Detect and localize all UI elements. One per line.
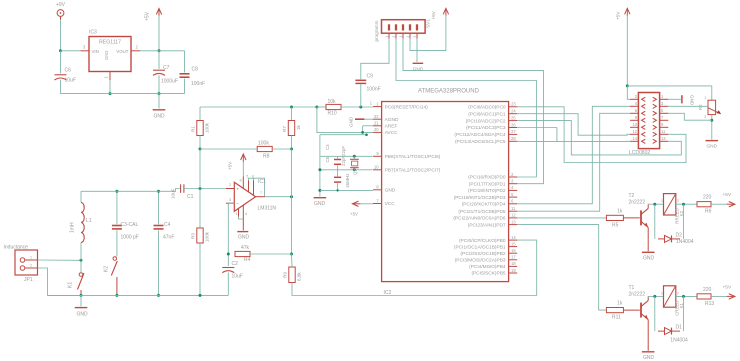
svg-text:K1: K1 [68,282,74,288]
svg-text:28: 28 [511,136,516,141]
svg-text:R13: R13 [705,301,714,307]
svg-text:GND: GND [238,235,250,241]
svg-text:C8: C8 [192,67,199,73]
svg-text:3: 3 [399,36,403,38]
svg-text:2: 2 [677,199,679,203]
svg-text:T1: T1 [629,285,635,291]
svg-text:C1: C1 [187,194,194,200]
svg-text:4: 4 [245,212,247,216]
svg-text:13: 13 [661,136,666,141]
svg-text:+5V: +5V [723,284,732,290]
svg-text:GND: GND [385,188,396,194]
svg-text:R8: R8 [263,154,270,160]
svg-text:(PCI10/ADC2)PC2: (PCI10/ADC2)PC2 [466,118,506,124]
svg-text:(PCI8/ADC0)PC0: (PCI8/ADC0)PC0 [468,105,506,111]
svg-text:20: 20 [374,127,379,132]
svg-text:1k: 1k [617,208,623,214]
svg-text:10: 10 [374,165,379,170]
svg-text:(PCI11/ADC3)PC3: (PCI11/ADC3)PC3 [466,125,506,131]
svg-text:C3-CAL: C3-CAL [121,222,139,228]
svg-text:(PCI1/OC1A/OC1B)PB1: (PCI1/OC1A/OC1B)PB1 [454,244,506,250]
svg-text:4: 4 [406,36,410,38]
svg-text:IC2: IC2 [384,290,392,296]
svg-text:C2: C2 [232,261,239,267]
svg-text:2n2222: 2n2222 [629,199,646,205]
svg-text:R5: R5 [612,222,619,228]
svg-text:(PCI23/AIN1)PD7: (PCI23/AIN1)PD7 [468,222,506,228]
svg-text:5: 5 [247,174,249,178]
svg-text:(PCI22/AIN0/OC0A)PD6: (PCI22/AIN0/OC0A)PD6 [453,216,506,222]
svg-text:17: 17 [511,255,516,260]
svg-text:10uF: 10uF [232,274,243,280]
svg-text:LM311N: LM311N [258,206,277,212]
svg-text:(PCI18/INT0)PD2: (PCI18/INT0)PD2 [468,188,506,194]
svg-text:11: 11 [661,129,666,134]
svg-text:GND: GND [349,116,354,127]
svg-text:+5V: +5V [228,161,233,170]
svg-text:Q1: Q1 [353,169,358,175]
svg-text:(PCI4/MISO)PB4: (PCI4/MISO)PB4 [469,264,506,270]
svg-text:100k: 100k [205,231,210,242]
svg-text:+9V: +9V [56,2,66,8]
svg-text:2: 2 [30,264,32,268]
svg-text:REG1117: REG1117 [99,40,121,46]
svg-text:13: 13 [511,219,516,224]
svg-text:T2: T2 [629,193,635,199]
svg-text:R2: R2 [698,104,703,110]
svg-text:JP1: JP1 [24,277,33,283]
svg-text:R10: R10 [328,111,337,117]
svg-text:14: 14 [632,136,637,141]
svg-text:AVCC: AVCC [385,130,399,136]
svg-text:8: 8 [240,179,242,183]
svg-text:C6: C6 [65,68,72,74]
svg-text:3: 3 [229,198,231,202]
svg-text:12: 12 [511,213,516,218]
svg-text:R6: R6 [705,209,712,215]
svg-text:PB7(XTAL2/TOSC2/PCI7): PB7(XTAL2/TOSC2/PCI7) [385,168,441,174]
svg-text:C7: C7 [163,65,170,71]
svg-text:1: 1 [661,291,663,295]
svg-text:23: 23 [511,102,516,107]
svg-text:1000uF: 1000uF [161,79,178,85]
svg-text:(PCI20/XCK/T0)PD4: (PCI20/XCK/T0)PD4 [462,202,506,208]
svg-text:100k: 100k [258,141,269,147]
svg-text:100nF: 100nF [367,87,381,93]
svg-text:GND: GND [706,144,717,150]
svg-text:VIN: VIN [92,49,99,54]
svg-text:GND: GND [153,114,165,120]
svg-text:C4: C4 [164,222,171,228]
svg-text:25: 25 [511,115,516,120]
svg-text:10: 10 [632,122,637,127]
svg-text:26: 26 [511,122,516,127]
svg-text:100nF: 100nF [191,81,205,87]
svg-text:R11: R11 [612,315,621,321]
svg-text:6,8k: 6,8k [297,272,302,281]
svg-text:GND: GND [690,95,695,106]
svg-text:1N4004: 1N4004 [670,338,688,344]
svg-text:PB6(XTAL1/TOSC1/PCI6): PB6(XTAL1/TOSC1/PCI6) [385,154,441,160]
svg-text:5: 5 [413,36,417,38]
svg-text:2: 2 [229,183,231,187]
svg-text:47k: 47k [241,245,250,251]
svg-text:21: 21 [374,121,379,126]
svg-text:1mH: 1mH [70,222,76,233]
svg-text:22: 22 [374,114,379,119]
svg-text:GND: GND [314,201,326,207]
svg-text:R1: R1 [191,126,196,132]
svg-text:24: 24 [511,109,516,114]
svg-text:16: 16 [511,248,516,253]
svg-text:15: 15 [511,241,516,246]
svg-text:2: 2 [392,36,396,38]
svg-text:27: 27 [511,129,516,134]
svg-text:1: 1 [30,256,32,260]
svg-text:IC1: IC1 [258,179,266,185]
svg-text:ATMEGA328PROUND: ATMEGA328PROUND [418,89,480,95]
svg-text:(PCI12/ADC4/SDA)PC4: (PCI12/ADC4/SDA)PC4 [454,132,506,138]
svg-text:12: 12 [632,129,637,134]
svg-text:1k: 1k [617,301,623,307]
svg-text:C5: C5 [325,156,330,162]
svg-text:3: 3 [704,115,706,119]
svg-text:1000 pF: 1000 pF [121,235,139,241]
svg-text:14: 14 [511,235,516,240]
svg-text:GND: GND [413,67,424,73]
svg-text:(PCI0/ICP/CLKO)PB0: (PCI0/ICP/CLKO)PB0 [459,238,506,244]
svg-text:GND: GND [104,51,109,60]
svg-text:PC6(RESET/PCI14): PC6(RESET/PCI14) [385,104,429,110]
svg-text:2: 2 [677,291,679,295]
svg-text:(PCI5/SCK)PB5: (PCI5/SCK)PB5 [471,271,505,277]
svg-text:11: 11 [511,206,516,211]
svg-text:VOUT: VOUT [116,49,129,54]
svg-text:100k: 100k [205,122,210,133]
svg-text:19: 19 [511,268,516,273]
svg-text:(PCI3/MOSI/OC2A)PB3: (PCI3/MOSI/OC2A)PB3 [455,258,506,264]
svg-text:1: 1 [704,96,706,100]
svg-text:22pF22pF: 22pF22pF [341,146,346,166]
svg-text:(PCI16/RXD)PD0: (PCI16/RXD)PD0 [468,175,506,181]
svg-text:7: 7 [260,191,262,195]
svg-text:GND: GND [643,355,655,361]
svg-text:programm: programm [374,20,379,41]
svg-text:VCC: VCC [385,201,396,207]
svg-text:1: 1 [661,199,663,203]
svg-text:47nF: 47nF [163,235,174,241]
svg-text:10k: 10k [328,99,337,105]
svg-text:−: − [236,201,239,206]
svg-text:R3: R3 [191,233,196,239]
svg-text:+5V: +5V [723,192,732,198]
svg-text:(PCI2/SS/OC1B)PB2: (PCI2/SS/OC1B)PB2 [461,251,506,257]
svg-text:+5V: +5V [145,11,151,21]
svg-text:(PCI13/ADC5/SCL)PC5: (PCI13/ADC5/SCL)PC5 [455,139,506,145]
svg-text:C9: C9 [367,74,374,80]
svg-text:220: 220 [703,287,712,293]
svg-text:1N4004: 1N4004 [676,239,694,245]
svg-text:D1: D1 [676,325,683,331]
svg-text:AGND: AGND [385,117,399,123]
svg-text:16MHz: 16MHz [345,173,350,188]
svg-text:10uF: 10uF [171,188,176,199]
svg-text:R9: R9 [283,272,288,278]
svg-text:R4: R4 [244,257,251,263]
svg-text:10uF: 10uF [65,78,76,84]
svg-text:6: 6 [252,174,254,178]
svg-text:C3: C3 [325,144,330,150]
svg-text:(PCI17/TXD)PD1: (PCI17/TXD)PD1 [469,181,506,187]
svg-text:K2: K2 [104,266,110,272]
svg-text:18: 18 [511,261,516,266]
svg-text:+5V: +5V [616,11,621,20]
svg-text:1: 1 [236,212,238,216]
svg-text:D2: D2 [676,232,683,238]
svg-text:1k: 1k [296,124,301,130]
svg-text:+5V: +5V [350,212,358,217]
svg-text:220: 220 [703,195,712,201]
svg-text:(PCI9/ADC1)PC1: (PCI9/ADC1)PC1 [468,111,506,117]
svg-text:IC3: IC3 [89,30,97,36]
svg-text:L1: L1 [86,218,92,224]
svg-text:(PCI21/T1/OC0B)PD5: (PCI21/T1/OC0B)PD5 [458,209,506,215]
svg-text:+: + [236,186,239,191]
svg-text:GND: GND [76,312,88,318]
svg-text:SV1: SV1 [426,19,431,28]
svg-text:2n2222: 2n2222 [629,292,646,298]
svg-text:GND: GND [643,255,655,261]
svg-text:+5V: +5V [431,10,436,19]
svg-text:(PCI19/INT1/OC2B)PD3: (PCI19/INT1/OC2B)PD3 [454,195,506,201]
svg-text:AREF: AREF [385,124,398,130]
svg-text:1: 1 [385,36,389,38]
svg-text:R7: R7 [282,126,287,132]
